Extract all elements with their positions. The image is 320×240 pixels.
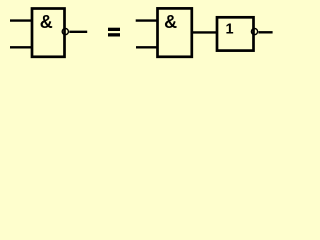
svg-text:1: 1	[226, 22, 234, 38]
inversion bubble on U1 output	[62, 29, 68, 35]
wire output of U3	[258, 31, 272, 33]
wire input B of AND U2	[136, 46, 158, 48]
svg-text:&: &	[40, 12, 53, 32]
wire input A of AND U2	[136, 19, 158, 21]
NAND gate U1 body	[32, 9, 65, 57]
wire U2 output to U3 input	[192, 31, 217, 33]
background	[0, 0, 281, 67]
AND gate U2 body	[158, 8, 192, 56]
wire input B of NAND U1	[10, 46, 32, 48]
wire input A of NAND U1	[10, 19, 32, 21]
equals sign	[108, 28, 120, 31]
inverter U3 body	[217, 17, 254, 50]
svg-text:&: &	[164, 12, 177, 32]
inversion bubble on U3 output	[251, 29, 257, 35]
wire output of U1	[69, 31, 87, 33]
